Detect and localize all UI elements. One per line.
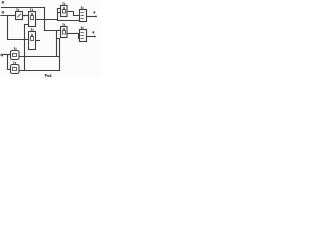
- wire input a: [4, 54, 11, 56]
- label above A: [17, 9, 19, 11]
- wire F out: [87, 16, 97, 18]
- wire jog y38: [57, 38, 60, 40]
- gate E box: [61, 6, 68, 17]
- wire E out jog to F: [67, 12, 80, 16]
- gate G box: [61, 27, 68, 38]
- wire branch to H lower input: [79, 34, 80, 39]
- wire vertical x24: [24, 25, 26, 71]
- symbol inside A: [18, 14, 21, 17]
- wire vertical x56 to bus1: [56, 31, 58, 57]
- modulator C box: [29, 32, 36, 50]
- label above O2: [14, 62, 16, 64]
- node a (input label): [1, 54, 3, 56]
- wire vertical up to E input: [57, 9, 59, 21]
- wire H out: [87, 36, 96, 38]
- label above C: [31, 29, 33, 31]
- wire input c: [1, 15, 16, 17]
- wire vertical from rail down: [44, 8, 46, 31]
- node c (input label): [2, 11, 4, 13]
- node e (top rail label): [2, 1, 4, 3]
- symbol inside C: [31, 35, 34, 41]
- symbol inside E: [63, 8, 66, 14]
- wire rail to box G input: [45, 30, 61, 32]
- wire C out: [36, 40, 40, 42]
- modulator B box: [29, 12, 36, 27]
- label figure caption Fig.2: [45, 74, 51, 76]
- wire B out to junction x57: [36, 19, 58, 21]
- oscillator O2: [11, 65, 20, 74]
- terminal dot F out: [95, 16, 97, 18]
- label terminal t1: [94, 12, 95, 14]
- wire A out: [23, 15, 29, 17]
- wire branch to osc2: [8, 55, 11, 70]
- junction dot A out: [24, 15, 26, 17]
- terminal dot H out: [94, 36, 96, 38]
- wire x24 to box B lower input: [25, 24, 29, 26]
- wire branch x7 down to box C input: [8, 16, 29, 40]
- wire stub E input upper: [58, 8, 61, 10]
- label above H: [81, 27, 83, 29]
- wire stub E input lower: [58, 12, 61, 14]
- symbol inside H: [81, 33, 84, 39]
- wire long line to F lower input: [58, 20, 80, 22]
- label above O1: [14, 48, 16, 50]
- junction dot bus1 x24: [24, 56, 26, 58]
- wire G out to H: [67, 33, 80, 35]
- oscillator O1: [11, 51, 20, 60]
- symbol inside O1: [13, 54, 17, 57]
- label above B: [31, 9, 33, 11]
- wire vertical x60 to bus2: [59, 39, 61, 71]
- symbol inside G: [63, 29, 66, 35]
- wire bus2: [19, 70, 60, 72]
- symbol inside F: [81, 13, 84, 19]
- wire bus1: [19, 56, 60, 58]
- label above F: [81, 7, 83, 9]
- adder H box: [80, 30, 87, 42]
- symbol inside O2: [13, 68, 17, 71]
- label terminal t2: [93, 32, 94, 34]
- adder F box: [80, 10, 87, 22]
- wire top rail e: [2, 7, 45, 9]
- symbol inside B: [31, 14, 34, 20]
- label above E: [63, 3, 65, 5]
- label above G: [63, 24, 65, 26]
- resistor A box: [16, 12, 23, 20]
